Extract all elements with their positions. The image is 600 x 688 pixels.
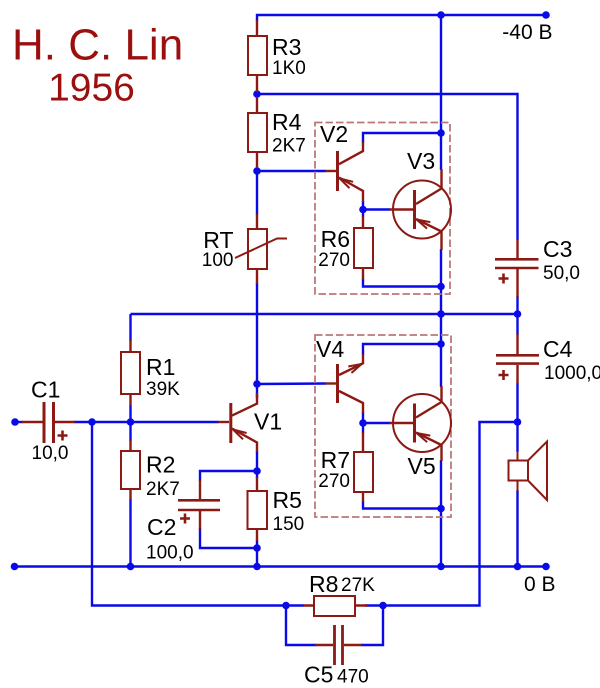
thermistor RT diagonal mark: [235, 239, 287, 259]
svg-text:270: 270: [318, 471, 350, 492]
wire top rail -40V: [257, 15, 546, 21]
wire R4 bottom to RT top: [256, 167, 258, 215]
wire x441 V4 row to V5 collector: [440, 344, 442, 387]
svg-text:-40 В: -40 В: [502, 21, 552, 44]
transistor V4: [325, 354, 363, 413]
wire speaker bottom to rail: [516, 490, 518, 567]
svg-text:C1: C1: [31, 377, 60, 403]
resistor R7: [354, 452, 373, 492]
svg-text:H. C. Lin: H. C. Lin: [12, 21, 183, 70]
wire V1 emitter junction column: [256, 451, 258, 478]
transistor V5: [389, 386, 451, 461]
wire R1 top: [129, 314, 131, 341]
wire C5 left branch: [286, 606, 316, 646]
svg-text:R4: R4: [272, 109, 302, 135]
wire feedback column x92 down to R8 row: [92, 422, 286, 606]
wire emitter junction to C2 top: [200, 471, 257, 481]
resistor R2: [121, 451, 140, 489]
capacitor C2: [178, 480, 220, 529]
resistor R3 leads: [256, 20, 258, 92]
node R1 R2 V1 base junction: [127, 418, 135, 426]
node rail R2: [127, 563, 135, 571]
wire x441 R7 row to bottom rail: [440, 509, 442, 567]
wire V2 base from x257: [257, 170, 326, 172]
resistor R2 leads: [129, 440, 131, 500]
resistor R5 leads: [256, 477, 258, 541]
resistor R1 leads: [129, 340, 131, 406]
label RT: [202, 227, 234, 271]
node R5 C2 bottom junction: [253, 544, 261, 552]
label R8: [309, 571, 375, 597]
svg-text:150: 150: [273, 514, 305, 535]
svg-text:270: 270: [318, 250, 350, 271]
svg-text:C2: C2: [147, 514, 176, 540]
wire C5 right branch: [361, 606, 383, 646]
svg-text:V2: V2: [320, 121, 348, 147]
wire V1 collector stub: [256, 384, 258, 398]
dashed box V4 V5 pair: [315, 335, 451, 517]
label V2: [320, 121, 348, 147]
wire V3 emitter to R6 bottom row: [440, 249, 442, 287]
node R8 left junction: [282, 602, 290, 610]
speaker LS: [509, 442, 548, 501]
wire C2 bottom to R5 bottom junction: [200, 528, 257, 548]
wire R5 bottom to rail: [256, 540, 258, 567]
wire x441 mid row to V4 emitter row: [440, 314, 442, 344]
resistor R4: [248, 113, 267, 152]
svg-text:2K7: 2K7: [146, 479, 180, 500]
wire right column C3 bottom to junction y314: [516, 296, 518, 335]
node mid row right column: [514, 310, 522, 318]
svg-text:10,0: 10,0: [32, 443, 69, 464]
wire input terminal to C1: [15, 421, 23, 423]
label C2: [146, 514, 194, 564]
resistor R4 leads: [256, 97, 258, 168]
capacitor C1: [22, 402, 75, 443]
capacitor C3: [495, 239, 539, 297]
svg-text:R3: R3: [272, 34, 301, 60]
svg-text:470: 470: [337, 667, 369, 688]
transistor V3: [389, 169, 451, 250]
wire junction to V3 base horizontal: [363, 208, 390, 210]
capacitor C4: [496, 334, 539, 384]
wire R8 left lead row: [286, 604, 304, 606]
wire V1 collector junction to V4 base: [257, 382, 326, 385]
wire R6 bottom to x441: [363, 279, 441, 287]
wire x441 R6 row to mid row y314: [440, 287, 442, 315]
wire bottom rail 0V: [15, 565, 547, 567]
svg-text:100,0: 100,0: [146, 543, 194, 564]
node top rail right end: [542, 11, 550, 19]
resistor R8 leads: [303, 604, 368, 606]
label V1: [254, 409, 282, 435]
svg-text:2K7: 2K7: [272, 136, 306, 157]
node rail speaker: [514, 563, 522, 571]
wire R3 to R4 junction row y94 to right column: [256, 91, 258, 98]
svg-text:R7: R7: [321, 447, 350, 473]
node V4 collector V5 base junction: [359, 419, 367, 427]
node V4 emitter junction: [437, 340, 445, 348]
svg-text:C4: C4: [543, 336, 573, 362]
node R6 bottom junction: [437, 283, 445, 291]
node rail left end: [11, 563, 19, 571]
label C3: [543, 236, 580, 284]
thermistor RT: [248, 229, 267, 269]
svg-text:100: 100: [202, 250, 234, 271]
label V5: [408, 453, 436, 479]
svg-text:50,0: 50,0: [543, 263, 580, 284]
svg-text:1000,0: 1000,0: [544, 363, 600, 384]
dashed box V2 V3 pair: [315, 123, 450, 295]
wire V2 collector to x441: [363, 133, 441, 143]
svg-text:27K: 27K: [341, 575, 375, 596]
node R8 right junction: [379, 602, 387, 610]
label R6: [318, 226, 350, 271]
label R5: [273, 487, 305, 535]
wire x441 top rail to V3 collector: [440, 15, 442, 170]
label R2: [146, 452, 180, 501]
svg-text:V5: V5: [408, 453, 436, 479]
label V4: [316, 336, 344, 362]
wire R7 bottom to x441: [363, 501, 441, 509]
node C1 feedback junction: [88, 418, 96, 426]
wire V4 collector junction to V5 base: [362, 412, 364, 433]
svg-text:1956: 1956: [48, 67, 135, 110]
resistor R3: [248, 36, 267, 75]
wire mid row y314 from R1 to right column: [131, 313, 518, 315]
svg-text:0 В: 0 В: [524, 573, 556, 596]
label R7: [318, 447, 350, 492]
wire R1 bottom to junction y422: [129, 405, 131, 422]
title H. C. Lin 1956: [12, 21, 183, 110]
svg-text:C3: C3: [543, 236, 572, 262]
svg-text:C5: C5: [304, 662, 333, 688]
node rail x441: [437, 563, 445, 571]
resistor R5: [248, 491, 268, 529]
label C4: [543, 336, 600, 384]
node rail R5: [253, 563, 261, 571]
node speaker top junction: [514, 418, 522, 426]
node R7 bottom junction: [437, 505, 445, 513]
svg-text:39K: 39K: [146, 379, 180, 400]
thermistor RT leads: [256, 214, 258, 284]
wire y94 horizontal to right column top: [257, 94, 518, 240]
resistor R7 leads: [362, 432, 364, 502]
node top rail x441: [437, 11, 445, 19]
label -40V rail: [502, 21, 552, 44]
wire R2 bottom to rail: [129, 499, 131, 567]
wire V5 emitter to R7 bottom row: [440, 460, 442, 509]
label C5: [304, 662, 369, 688]
node V1 collector junction: [253, 380, 261, 388]
capacitor C5: [315, 625, 362, 665]
svg-text:R5: R5: [273, 487, 302, 513]
svg-text:1K0: 1K0: [272, 58, 306, 79]
svg-text:V1: V1: [254, 409, 282, 435]
svg-text:V4: V4: [316, 336, 344, 362]
transistor V2: [325, 142, 363, 202]
wire junction to V5 base horizontal: [363, 422, 390, 424]
transistor V1: [218, 393, 257, 452]
node V2 collector junction: [437, 129, 445, 137]
node V2 emitter R6 junction: [359, 206, 367, 214]
wire RT bottom to V1 collector junction: [256, 283, 258, 384]
wire C1 to V1 base: [74, 421, 219, 423]
label R3: [272, 34, 306, 79]
label 0V rail: [524, 573, 556, 596]
wire V2 emitter junction to V3 base: [362, 201, 364, 217]
wire V4 emitter to x441: [363, 344, 441, 355]
label C1: [31, 377, 68, 465]
node V1 emitter junction: [253, 467, 261, 475]
resistor R1: [121, 352, 140, 394]
svg-text:R6: R6: [321, 226, 350, 252]
label R4: [272, 109, 306, 157]
svg-text:R2: R2: [146, 452, 175, 478]
node mid row x441: [437, 310, 445, 318]
wire speaker junction to feedback column x479 down to R8: [365, 422, 518, 606]
resistor R6 leads: [362, 216, 364, 280]
node input terminal: [11, 418, 19, 426]
node rail right end: [542, 563, 550, 571]
resistor R8: [314, 596, 355, 616]
wire C4 bottom to speaker junction: [516, 383, 518, 452]
svg-text:R8: R8: [309, 571, 338, 597]
svg-text:V3: V3: [407, 148, 435, 174]
svg-text:R1: R1: [146, 354, 175, 380]
node V2 base junction: [253, 167, 261, 175]
resistor R6: [354, 228, 373, 268]
node R3-R4 junction: [253, 90, 261, 98]
label V3: [407, 148, 435, 174]
label R1: [146, 354, 180, 400]
wire R2 top: [129, 422, 131, 441]
